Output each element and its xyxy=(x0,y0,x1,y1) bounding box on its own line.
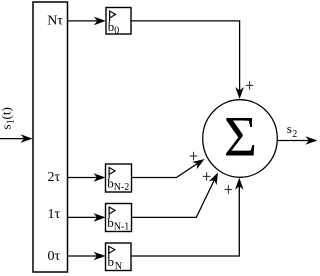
summer circle xyxy=(203,100,278,178)
svg-text:b: b xyxy=(108,254,115,269)
svg-text:2: 2 xyxy=(292,129,297,140)
tap wire 0tau xyxy=(68,255,98,257)
output arrowhead xyxy=(305,136,317,145)
arrowhead bN into summer xyxy=(235,178,244,190)
svg-text:2τ: 2τ xyxy=(48,170,61,185)
svg-text:N-1: N-1 xyxy=(114,222,130,233)
svg-text:Nτ: Nτ xyxy=(47,13,63,28)
weight block bN-1 xyxy=(106,204,132,233)
tap wire 1tau xyxy=(68,216,98,218)
svg-text:0: 0 xyxy=(114,26,119,37)
svg-text:Σ: Σ xyxy=(224,106,257,169)
tap arrowhead Ntau xyxy=(94,17,106,26)
svg-text:(t): (t) xyxy=(0,107,14,119)
weight block bN-2 xyxy=(106,164,132,193)
plus sign at b0 input xyxy=(246,81,254,89)
wire bN to summer xyxy=(131,186,239,256)
wire bN-1 to summer xyxy=(132,180,215,218)
input label s1(t) xyxy=(0,107,16,129)
svg-text:s: s xyxy=(0,124,14,129)
svg-text:N-2: N-2 xyxy=(114,182,130,193)
svg-text:1τ: 1τ xyxy=(48,207,61,222)
arrowhead bN-2 into summer xyxy=(192,155,207,169)
tap arrowhead 0tau xyxy=(94,252,106,261)
weight block bN xyxy=(106,243,132,272)
svg-text:N: N xyxy=(115,261,122,272)
svg-text:s: s xyxy=(287,121,292,136)
svg-text:0τ: 0τ xyxy=(48,249,61,264)
arrowhead b0 into summer xyxy=(235,87,244,99)
plus sign at bN input xyxy=(225,185,233,193)
delay line box xyxy=(33,2,68,272)
input arrowhead xyxy=(21,134,33,143)
tap arrowhead 1tau xyxy=(94,213,106,222)
tap wire 2tau xyxy=(68,177,98,179)
plus sign at bN-1 input xyxy=(203,172,211,180)
weight block b0 xyxy=(106,8,131,37)
arrowhead bN-1 into summer xyxy=(209,171,222,186)
output wire s2 xyxy=(277,140,309,142)
tap arrowhead 2tau xyxy=(94,173,106,182)
input wire s1(t) xyxy=(0,138,24,140)
wire b0 to summer xyxy=(131,21,240,91)
wire bN-2 to summer xyxy=(132,162,201,178)
plus sign at bN-2 input xyxy=(190,152,198,160)
tap wire Ntau xyxy=(68,20,98,22)
